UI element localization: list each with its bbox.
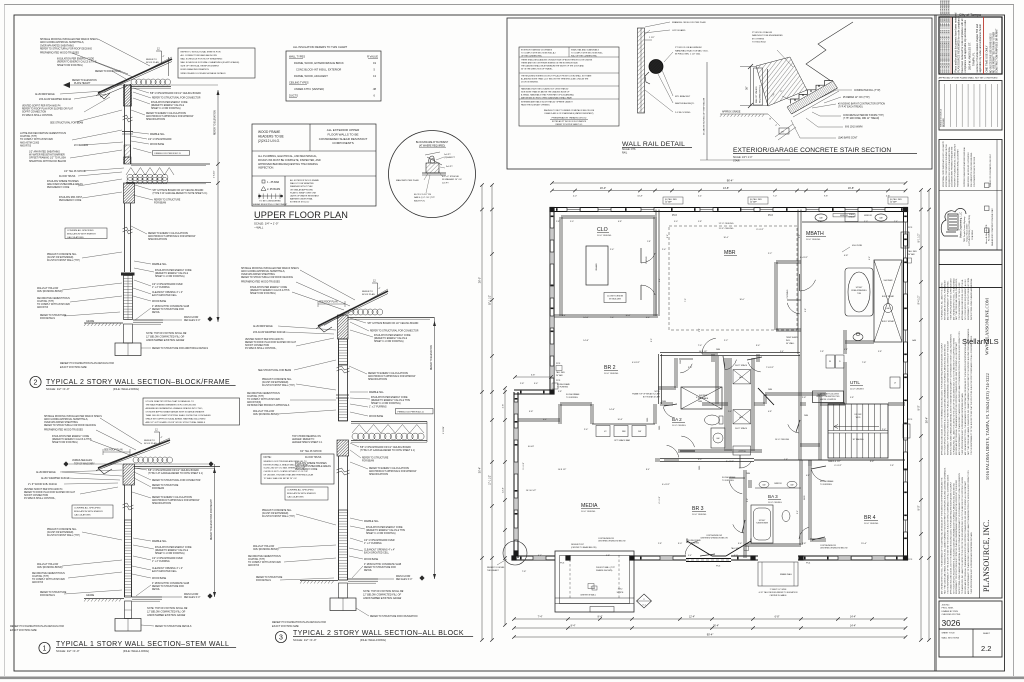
svg-text:RAILINGS TO BE PT LUMBER OR ME: RAILINGS TO BE PT LUMBER OR METAL IF BEL…: [544, 109, 595, 112]
svg-text:2'-4": 2'-4": [662, 249, 667, 251]
svg-text:SHEET TITLE: SHEET TITLE: [942, 633, 956, 635]
svg-text:FACT THAT CODES CAN CHANGE, PL: FACT THAT CODES CAN CHANGE, PLANSOURCE, …: [944, 467, 947, 594]
svg-text:PREFABRICATED WOOD TRUSSES: PREFABRICATED WOOD TRUSSES: [40, 52, 79, 55]
svg-text:TALL WIN: TALL WIN: [731, 547, 740, 550]
svg-text:S-5/SD-3 AT 48" O/C MAX. WHERE: S-5/SD-3 AT 48" O/C MAX. WHERE BOTTOM: [264, 467, 305, 470]
svg-text:NO SUCCESSIVE USE OR RE-USE IS: NO SUCCESSIVE USE OR RE-USE IS: [991, 33, 993, 73]
wall section 2 grade line: [84, 322, 123, 324]
svg-text:FLUSH AT FRONT WALL (TYP): FLUSH AT FRONT WALL (TYP): [262, 384, 295, 387]
svg-text:TO COMPLY WITH SECTIONS R311.A: TO COMPLY WITH SECTIONS R311.A.2: [521, 52, 556, 55]
hall walls center: [711, 354, 713, 362]
floor plan porch protrusion: [555, 551, 634, 612]
svg-text:SHEET FOR R RATING): SHEET FOR R RATING): [57, 64, 83, 67]
svg-text:UTIL: UTIL: [850, 380, 860, 385]
svg-text:WALL TYPES: WALL TYPES: [289, 55, 305, 59]
BA2 hall walls: [658, 354, 660, 404]
svg-text:3'-8": 3'-8": [558, 391, 562, 393]
svg-text:FLOOR TRUSS: FLOOR TRUSS: [59, 176, 76, 178]
svg-text:2'-6": 2'-6": [747, 498, 749, 502]
svg-text:ALUM DRIP EDGE: ALUM DRIP EDGE: [36, 471, 56, 474]
MBATH closet walls: [776, 260, 801, 262]
svg-text:TO FURRING: TO FURRING: [722, 480, 734, 482]
svg-text:CMU (RUNNING BOND): CMU (RUNNING BOND): [37, 567, 63, 569]
svg-text:(TYPE X AT GARAGE-REFER TO NOT: (TYPE X AT GARAGE-REFER TO NOTE SHEET 2.…: [153, 192, 208, 195]
svg-text:TO COMPLY WITH ASTM C926: TO COMPLY WITH ASTM C926: [248, 561, 282, 564]
svg-text:MAIN FLOOR: MAIN FLOOR: [184, 593, 199, 596]
svg-text:VENTED SOFFIT PER R704 AND P4: VENTED SOFFIT PER R704 AND P4: [24, 488, 63, 491]
svg-text:REFER TO STRUCTURE: REFER TO STRUCTURE: [154, 200, 181, 202]
section 2 footing: [115, 343, 141, 356]
floor plan interior CLO walls: [559, 217, 561, 316]
svg-text:16'-8": 16'-8": [848, 187, 854, 190]
revisions rule lines: [944, 84, 946, 127]
wall section 3 floor band: [351, 421, 427, 423]
svg-text:FEMA CLASS 4 OR 5 MATERIALS (W: FEMA CLASS 4 OR 5 MATERIALS (WATER RESIS…: [545, 112, 594, 115]
svg-text:INSULATION PER ENERGY CODE: INSULATION PER ENERGY CODE: [57, 58, 94, 61]
svg-text:(TYP AT EACH TREAD): (TYP AT EACH TREAD): [838, 106, 863, 109]
svg-text:OFFSET FRAMING 1/2" TO FLUSH: OFFSET FRAMING 1/2" TO FLUSH: [29, 157, 66, 160]
svg-text:PLASTIC WRAP OVER ONE: PLASTIC WRAP OVER ONE: [290, 191, 317, 194]
svg-text:SIZE OF VERTICAL REINFORCEMENT: SIZE OF VERTICAL REINFORCEMENT: [181, 65, 220, 68]
corridor wall above BR3: [655, 458, 660, 460]
svg-text:(FLUSH OR EXTENDED): (FLUSH OR EXTENDED): [47, 532, 74, 534]
svg-text:36" WALL: 36" WALL: [786, 342, 794, 345]
revisions box: [939, 81, 1002, 131]
svg-text:26'-0": 26'-0": [479, 277, 482, 283]
wall section 1 ceiling gyp lines: [134, 466, 220, 468]
CLO double door: [641, 253, 655, 263]
svg-text:13'-4 1/2": 13'-4 1/2": [831, 461, 840, 463]
svg-text:ABOVE LOCATION: ABOVE LOCATION: [820, 398, 836, 401]
svg-text:SOFFIT CONNECTION: SOFFIT CONNECTION: [24, 495, 49, 497]
svg-text:TO FURRING: TO FURRING: [820, 484, 832, 486]
wall rail detail wall strip: [638, 28, 645, 113]
svg-text:AND PRODUCT APPROVALS FOR WIND: AND PRODUCT APPROVALS FOR WINDOW: [146, 115, 194, 118]
svg-text:3'-0": 3'-0": [688, 367, 693, 369]
svg-text:5'-4": 5'-4": [844, 349, 848, 351]
top right details enclosure box: [507, 18, 932, 169]
wall section 3 right lower leaders: [350, 518, 363, 521]
svg-text:PER ENERGY CODE: PER ENERGY CODE: [47, 187, 70, 189]
svg-text:SHEET C.1 FOR R RATING): SHEET C.1 FOR R RATING): [374, 340, 404, 343]
svg-text:REFER TO STRUCTURE DETAILS: REFER TO STRUCTURE DETAILS: [155, 625, 192, 628]
svg-text:CEILING TYPES: CEILING TYPES: [289, 81, 309, 85]
svg-text:16'-0": 16'-0": [739, 299, 744, 301]
svg-text:LATHE AND DECORATIVE CEMENTITI: LATHE AND DECORATIVE CEMENTITIOUS: [20, 132, 66, 135]
svg-text:2080: 2080: [659, 426, 661, 430]
MBATH shower: [874, 260, 902, 342]
wall section 3 stem and footing: [339, 583, 348, 598]
svg-text:BOND BEAM INFORMATION: BOND BEAM INFORMATION: [181, 68, 210, 71]
svg-text:2'-6": 2'-6": [797, 510, 799, 514]
svg-text:6'-4": 6'-4": [538, 555, 542, 557]
svg-text:5'-4": 5'-4": [780, 351, 784, 353]
svg-text:COMPACTED FILL (TYP): COMPACTED FILL (TYP): [854, 89, 881, 92]
BR4 closet: [808, 460, 810, 540]
svg-text:12" BELOW COMPACTED FILL OR: 12" BELOW COMPACTED FILL OR: [147, 611, 185, 614]
svg-text:36"X60": 36"X60": [759, 520, 766, 522]
stair rail left post line: [767, 69, 769, 106]
svg-text:ALL CONNECTIONS AND ANCHORS: ALL CONNECTIONS AND ANCHORS: [181, 54, 218, 57]
svg-text:BLOCK/FRAME ATTACHMENT: BLOCK/FRAME ATTACHMENT: [416, 141, 449, 144]
svg-text:CENTERED W/WINDOW BELOW: CENTERED W/WINDOW BELOW: [820, 548, 848, 550]
svg-text:EXACT FOOTING SIZE: EXACT FOOTING SIZE: [10, 629, 37, 632]
svg-text:4'-8 1/2": 4'-8 1/2": [632, 362, 640, 364]
svg-text:1" x 2" FURRING: 1" x 2" FURRING: [369, 407, 387, 409]
svg-text:(CENTER TO BEAM BELOW): (CENTER TO BEAM BELOW): [571, 546, 597, 549]
hall walls west of duct: [715, 356, 717, 404]
svg-text:WHERE SHOWN): WHERE SHOWN): [596, 570, 613, 572]
shear notes lintel sketch: [258, 195, 283, 197]
svg-text:RESPONSIBILITY FOR STRUCTURES: RESPONSIBILITY FOR STRUCTURES BUILT FROM…: [946, 340, 949, 455]
svg-text:MARBLE SILL: MARBLE SILL: [364, 520, 380, 523]
svg-text:TYPICAL 2 STORY WALL SECTION–B: TYPICAL 2 STORY WALL SECTION–BLOCK/FRAME: [46, 379, 230, 386]
svg-text:OF LEDGER, TRUSSES THAT ARE PE: OF LEDGER, TRUSSES THAT ARE PERPENDICULA…: [264, 473, 314, 476]
svg-text:INSULATION WITH ENERGY: INSULATION WITH ENERGY: [67, 233, 97, 236]
svg-text:10'-0" CEILING: 10'-0" CEILING: [850, 389, 864, 391]
svg-text:REFER TO ELEVATION: REFER TO ELEVATION: [72, 79, 97, 82]
svg-text:SCALE: 1/4" = 1'-0": SCALE: 1/4" = 1'-0": [254, 222, 278, 226]
svg-text:REFER TO STRUCTURE: REFER TO STRUCTURE: [256, 577, 283, 579]
floor plan exterior wall left lower: [513, 392, 515, 558]
svg-text:SCALE: 1/2" =1'-0": SCALE: 1/2" =1'-0": [56, 649, 80, 653]
svg-text:1" x 2" FURRING: 1" x 2" FURRING: [364, 543, 382, 545]
svg-text:5/8" GYPSUM BOARD OR 1/2" CEIL: 5/8" GYPSUM BOARD OR 1/2" CEILING BOARD: [148, 469, 199, 472]
wall section 2 ceiling insulation batts: [131, 79, 171, 85]
svg-text:24" AFF: 24" AFF: [665, 201, 673, 204]
svg-text:2'-4": 2'-4": [610, 249, 615, 251]
svg-text:2'-8": 2'-8": [802, 397, 807, 399]
svg-text:14'-8 1/2": 14'-8 1/2": [699, 351, 708, 353]
svg-text:UNDISTURBED EXISTING GRADE: UNDISTURBED EXISTING GRADE: [147, 614, 186, 617]
svg-text:& 20" TALL RECESS-REFER TO ELE: & 20" TALL RECESS-REFER TO ELEVATION: [759, 591, 798, 594]
svg-text:CLOSET DESIGN: CLOSET DESIGN: [607, 296, 624, 298]
wall section 1 elevation dim line: [214, 464, 216, 597]
svg-text:TYPICAL 2 STORY WALL SECTION–A: TYPICAL 2 STORY WALL SECTION–ALL BLOCK: [293, 630, 464, 637]
svg-text:EXTERIOR STAIRS AT DOORWAYS: EXTERIOR STAIRS AT DOORWAYS: [521, 49, 553, 52]
svg-text:REFER TO FOUNDATION PLAN DETAI: REFER TO FOUNDATION PLAN DETAILS FOR: [272, 621, 326, 624]
svg-text:INCL: INCL: [786, 340, 790, 342]
svg-text:AND PRODUCT APPROVALS FOR WIND: AND PRODUCT APPROVALS FOR WINDOW: [369, 470, 417, 473]
svg-text:SHEET C.1 FOR R RATING): SHEET C.1 FOR R RATING): [155, 552, 185, 555]
svg-text:WWW.PLANSONLINE.COM: WWW.PLANSONLINE.COM: [985, 298, 990, 355]
svg-text:7'-0": 7'-0": [685, 298, 687, 302]
sheet top edge line: [4, 4, 1014, 6]
svg-text:THE LANDING SHALL BE AT MINIMU: THE LANDING SHALL BE AT MINIMUM THE WIDT…: [521, 65, 585, 68]
svg-text:FOR BEAM: FOR BEAM: [152, 487, 164, 490]
svg-text:8'-1 1/2": 8'-1 1/2": [756, 229, 764, 231]
svg-text:HANDRAIL EXACT DETAIL T.B.D.: HANDRAIL EXACT DETAIL T.B.D.: [675, 49, 709, 52]
svg-text:PLANSOURCE, INC.: PLANSOURCE, INC.: [982, 520, 991, 592]
svg-text:INSULATION PER ENERGY CODE: INSULATION PER ENERGY CODE: [366, 526, 403, 529]
svg-text:REFER TO STRUCTURAL SHEETS FOR: REFER TO STRUCTURAL SHEETS FOR:: [181, 51, 222, 54]
stair down arrow: [834, 425, 879, 429]
svg-text:7'-8": 7'-8": [522, 571, 527, 573]
svg-text:24" AFF: 24" AFF: [556, 374, 564, 377]
svg-text:APPLICABLE BUILDING CODES. DUE: APPLICABLE BUILDING CODES. DUE TO THE VA…: [949, 481, 952, 594]
svg-text:SHEET FOR R RATING): SHEET FOR R RATING): [52, 441, 78, 444]
svg-text:CONCRETE EXTERIOR STAIRS (TYP): CONCRETE EXTERIOR STAIRS (TYP): [843, 114, 884, 117]
svg-text:CENTERED W/WINDOW BELOW: CENTERED W/WINDOW BELOW: [598, 541, 626, 543]
svg-text:FLUSH AT FRONT WALL (TYP): FLUSH AT FRONT WALL (TYP): [262, 515, 295, 518]
svg-text:5'-8": 5'-8": [529, 411, 534, 413]
svg-text:2680: 2680: [828, 461, 832, 463]
svg-text:(7.75" MAX RISE, MIN 11" TREAD: (7.75" MAX RISE, MIN 11" TREAD): [843, 117, 879, 120]
svg-text:9'-4": 9'-4": [659, 278, 661, 282]
svg-text:REFER TO STRUCTURE FOR: REFER TO STRUCTURE FOR: [364, 567, 396, 569]
svg-text:REFER TO STRUCTURAL FOR CONNEC: REFER TO STRUCTURAL FOR CONNECTOR: [152, 479, 201, 482]
svg-text:SEALED FOR FOUNDATION USE ONLY: SEALED FOR FOUNDATION USE ONLY: [989, 153, 992, 187]
svg-text:40 HT: 40 HT: [528, 446, 535, 448]
svg-text:RAILINGS TO BE ENGINEERED: RAILINGS TO BE ENGINEERED: [752, 34, 783, 37]
svg-text:UNDISTURBED EXISTING GRADE: UNDISTURBED EXISTING GRADE: [363, 597, 402, 600]
svg-text:2'-8": 2'-8": [556, 221, 560, 223]
svg-text:BODY SPRAY: BODY SPRAY: [882, 295, 895, 298]
svg-text:CONTRA WINDOW: CONTRA WINDOW: [706, 534, 722, 537]
svg-text:6'-8": 6'-8": [618, 221, 622, 223]
UTIL room walls: [843, 362, 845, 404]
svg-text:OR SIMILAR APPROVED: OR SIMILAR APPROVED: [290, 188, 314, 191]
svg-text:PT WOOD OR ALUMINUM: PT WOOD OR ALUMINUM: [675, 46, 702, 49]
wall rail dim 1.5in: [645, 39, 652, 41]
svg-text:1' 8-3/4": 1' 8-3/4": [214, 170, 216, 178]
svg-text:TOP CHORD BEARING ON: TOP CHORD BEARING ON: [292, 435, 321, 438]
svg-text:THEIR SPECIFICATION SHEET SUPE: THEIR SPECIFICATION SHEET SUPERSEDES ANY: [949, 277, 952, 320]
svg-text:TO COMPLY WITH SECTIONS R311,: TO COMPLY WITH SECTIONS R311,: [571, 53, 603, 55]
svg-text:REFER TO ROOF PLAN FOR SLOPED: REFER TO ROOF PLAN FOR SLOPED OR FLAT: [24, 491, 76, 494]
svg-text:2X6 ALUM WRAPPED FASCIA: 2X6 ALUM WRAPPED FASCIA: [253, 331, 286, 334]
svg-text:IT IS THE RESPONSIBILITY OF TH: IT IS THE RESPONSIBILITY OF THE BUILDER: [959, 282, 961, 320]
svg-text:OPT SNACK BAR: OPT SNACK BAR: [614, 439, 631, 442]
svg-text:10'-0" CEILING: 10'-0" CEILING: [806, 239, 821, 241]
svg-text:P4 SPECS SHALL CONTROL: P4 SPECS SHALL CONTROL: [22, 114, 54, 117]
svg-text:17'-1 1/2": 17'-1 1/2": [489, 475, 492, 485]
svg-text:ALUM DRIP EDGE: ALUM DRIP EDGE: [35, 93, 55, 96]
svg-text:2'-8": 2'-8": [503, 404, 505, 409]
svg-text:AND ASTM C1063: AND ASTM C1063: [20, 141, 40, 144]
svg-text:MARBLE SILL: MARBLE SILL: [369, 391, 385, 394]
svg-text:4'-6": 4'-6": [869, 256, 871, 260]
BR4 closet interior: [808, 460, 810, 466]
svg-text:JOB NO.: JOB NO.: [942, 605, 951, 607]
svg-text:REFER TO STRUCTURE: REFER TO STRUCTURE: [362, 458, 389, 460]
laundry walls: [800, 402, 806, 404]
svg-text:14'-8 1/2": 14'-8 1/2": [558, 469, 567, 471]
wall section 3 eave fascia: [318, 326, 332, 332]
svg-text:TO PLANSOURCE, INC. LIABILITY: TO PLANSOURCE, INC. LIABILITY IS LIMITED…: [952, 337, 955, 455]
gable recess: [758, 562, 798, 586]
svg-text:CONSTRUCTION PURPOSES OR PERMI: CONSTRUCTION PURPOSES OR PERMIT: [996, 28, 998, 73]
svg-text:(FILE: WALL1.DWG): (FILE: WALL1.DWG): [123, 649, 149, 653]
wall section 1 draftstopping notes box: [143, 398, 240, 425]
wall section 2 structural notes box: [178, 48, 255, 78]
svg-text:REFER TO ROOF PLAN FOR SLOPED: REFER TO ROOF PLAN FOR SLOPED OR FLAT: [245, 341, 297, 344]
svg-text:4" MONOLITHIC CONCRETE SLAB: 4" MONOLITHIC CONCRETE SLAB: [152, 582, 190, 585]
svg-text:A TREAD. HANDRAILS THAT FORM: A TREAD. HANDRAILS THAT FORM PART OF A G…: [521, 94, 574, 97]
svg-text:4'-8": 4'-8": [802, 543, 807, 545]
block frame attachment detail circle: [389, 131, 476, 218]
svg-text:ISLAND: ISLAND: [595, 263, 598, 271]
svg-text:WOOD BASE: WOOD BASE: [150, 143, 165, 146]
svg-text:CALCULATIONS: CALCULATIONS: [287, 496, 304, 499]
svg-text:Hanna A. Hanafan, P.E.: Hanna A. Hanafan, P.E.: [985, 224, 988, 244]
svg-text:REFER TO ENERGY CALCULATIONS: REFER TO ENERGY CALCULATIONS: [148, 232, 188, 235]
wall section 2 confirm insulation box: [65, 228, 107, 239]
narrow box 2: [939, 265, 1002, 288]
svg-text:FACT THAT CODES CAN CHANGE, PL: FACT THAT CODES CAN CHANGE, PLANSOURCE,: [955, 278, 958, 320]
svg-text:MTL BRACKET: MTL BRACKET: [675, 95, 691, 98]
wall section 3 note box: [261, 454, 334, 484]
svg-text:INSULATE WHERE TRUSSES: INSULATE WHERE TRUSSES: [47, 180, 79, 183]
svg-text:CONFIRM ALL SPECIFIED: CONFIRM ALL SPECIFIED: [74, 507, 101, 510]
svg-text:(2)2X12 U.N.O.: (2)2X12 U.N.O.: [258, 139, 280, 143]
svg-text:NAIL SCHEDULE FOR WALL SHEATHI: NAIL SCHEDULE FOR WALL SHEATHING (IF APP…: [181, 61, 240, 64]
svg-text:LAYER OF WATER RESISTANT: LAYER OF WATER RESISTANT: [290, 195, 320, 198]
svg-text:INSULATION PER ENERGY CODE: INSULATION PER ENERGY CODE: [250, 286, 287, 289]
wall section 2 elevation dim line: [217, 90, 219, 322]
svg-text:THE MAIN FRAMING MEMBERS IN FL: THE MAIN FRAMING MEMBERS IN FLOOR/CEILIN…: [146, 404, 197, 407]
svg-text:SHINGLE ROOFING INSTALLED PER: SHINGLE ROOFING INSTALLED PER MANUF SPEC…: [40, 38, 98, 41]
job number box: [939, 601, 1002, 629]
svg-text:PROJ. MGR.: PROJ. MGR.: [942, 608, 955, 610]
svg-text:ROOF PLAN: ROOF PLAN: [362, 293, 375, 296]
wall section 3 window sill marks: [336, 394, 349, 396]
svg-text:.38: .38: [372, 87, 376, 91]
svg-text:W: W: [829, 361, 831, 363]
svg-text:34"X66": 34"X66": [856, 287, 863, 289]
svg-text:DN 16R: DN 16R: [855, 414, 862, 416]
svg-text:5'-4": 5'-4": [698, 195, 702, 197]
svg-text:CENTER IN GABLE: CENTER IN GABLE: [769, 594, 787, 597]
engineer box divider: [939, 190, 1002, 192]
svg-text:THE REQUIRED EGRESS DOOR (TYPI: THE REQUIRED EGRESS DOOR (TYPICALLY FRON…: [521, 75, 592, 78]
MBR MBATH divider wall: [797, 210, 799, 355]
insulation chart box: [286, 51, 381, 101]
stamp inner columns: [952, 17, 954, 74]
svg-text:FL #55416607: FL #55416607: [989, 229, 991, 241]
svg-text:8'-0": 8'-0": [918, 405, 921, 410]
svg-text:2X FRAMING: 2X FRAMING: [74, 144, 88, 147]
svg-text:MIRROR: MIRROR: [864, 215, 872, 217]
svg-text:STAIR: STAIR: [733, 160, 740, 163]
svg-text:NAILS @ 4" O/C (TYP: NAILS @ 4" O/C (TYP: [414, 196, 435, 199]
svg-text:INSULATION WITH ENERGY: INSULATION WITH ENERGY: [74, 510, 104, 513]
svg-text:2'-8": 2'-8": [647, 241, 651, 243]
svg-text:REFER TO STRUCTURAL FOR ROOF D: REFER TO STRUCTURAL FOR ROOF DECKING: [241, 276, 293, 279]
svg-text:5/8" GYPSUM BOARD OR 1/2" CEIL: 5/8" GYPSUM BOARD OR 1/2" CEILING BOARD: [153, 189, 204, 192]
wall section 2 plate height marker: [63, 82, 70, 88]
svg-text:APPROX GRADE: APPROX GRADE: [722, 111, 741, 114]
svg-text:REFER TO ELEVATION: REFER TO ELEVATION: [214, 110, 217, 135]
svg-text:EXACT FOOTING SIZE: EXACT FOOTING SIZE: [60, 366, 87, 369]
svg-text:CLOSING: CLOSING: [787, 289, 789, 298]
svg-text:4'-1 1/2": 4'-1 1/2": [696, 397, 704, 399]
svg-text:(REFER TO ENERGY CALCS & THIS: (REFER TO ENERGY CALCS & THIS: [366, 529, 405, 532]
svg-text:SHINGLE ROOFING INSTALLED PER: SHINGLE ROOFING INSTALLED PER MANUF SPEC…: [44, 415, 102, 418]
svg-text:REFUNDS ARE NOT GIVEN. ALL PL: REFUNDS ARE NOT GIVEN. ALL PLANS AND ARC…: [964, 480, 967, 594]
svg-text:INSTRUCTIONS: SOME CHANGES AN: INSTRUCTIONS: SOME CHANGES AND MATERIAL: [970, 278, 973, 320]
svg-text:10'-0" CEILING: 10'-0" CEILING: [672, 425, 686, 427]
floor plan exterior wall top: [550, 207, 908, 209]
floor plan right dim lines: [920, 190, 922, 640]
svg-text:(FLUSH OR EXTENDED): (FLUSH OR EXTENDED): [262, 513, 289, 515]
svg-text:DUCT SPACE: DUCT SPACE: [735, 427, 748, 430]
svg-text:TO PLANSOURCE, INC. LIABILITY: TO PLANSOURCE, INC. LIABILITY IS LIMITED: [941, 282, 944, 320]
svg-text:ELCR X 3-1/2" RS: ELCR X 3-1/2" RS: [414, 194, 432, 196]
svg-text:CMU (RUNNING BOND): CMU (RUNNING BOND): [37, 291, 63, 293]
stair leader lines: [820, 90, 852, 98]
svg-text:12" BELOW COMPACTED FILL OF: 12" BELOW COMPACTED FILL OF: [363, 594, 401, 597]
svg-text:(AT WHERE REQUIRED): (AT WHERE REQUIRED): [419, 144, 445, 147]
svg-text:INSTRUCTIONS: SOME CHANGES AN: INSTRUCTIONS: SOME CHANGES AND MATERIAL …: [949, 333, 952, 455]
svg-text:4'-1 1/2": 4'-1 1/2": [659, 496, 661, 504]
svg-text:VENTED SOFFIT PER R704 AND P4: VENTED SOFFIT PER R704 AND P4: [245, 338, 284, 341]
svg-text:10'-0" CEILING: 10'-0" CEILING: [604, 373, 619, 375]
svg-text:FRAMING OR BLOCK PER PLAN: FRAMING OR BLOCK PER PLAN: [672, 21, 706, 24]
svg-text:MARBLE SILL: MARBLE SILL: [150, 133, 166, 136]
svg-text:EXTERIOR/GARAGE CONCRETE STAIR: EXTERIOR/GARAGE CONCRETE STAIR SECTION: [733, 147, 891, 154]
svg-text:DETAIL: DETAIL: [152, 588, 161, 591]
svg-text:CERTIFIED PLANS MUST BEAR EMBO: CERTIFIED PLANS MUST BEAR EMBOSSED SEAL: [963, 147, 966, 187]
svg-text:TO COMPLY WITH ASTM C926: TO COMPLY WITH ASTM C926: [37, 303, 71, 306]
wall section 2 upper wall studs: [124, 84, 126, 164]
svg-text:(FLUSH OR EXTENDED): (FLUSH OR EXTENDED): [47, 257, 74, 259]
svg-text:ANY USE AND INTENT TO WELL THE: ANY USE AND INTENT TO WELL THE ASSURANCE: [952, 277, 955, 320]
svg-text:THERE SHALL BE A LANDING ON EA: THERE SHALL BE A LANDING ON EACH SIDE OF…: [521, 59, 593, 62]
svg-text:CALCULATIONS: CALCULATIONS: [74, 514, 91, 517]
wall section 2 precast sill block: [121, 273, 135, 276]
MBATH vanity: [802, 221, 903, 223]
svg-text:AND FLORIDA APPROVAL SUBMITTAL: AND FLORIDA APPROVAL SUBMITTALS,: [40, 41, 84, 44]
svg-text:REFER TO ELEVATION: REFER TO ELEVATION: [430, 345, 433, 370]
svg-text:INSULATION PER ENERGY CODE: INSULATION PER ENERGY CODE: [52, 435, 89, 438]
svg-text:BY OTHERS: BY OTHERS: [752, 38, 765, 40]
svg-text:2'-0": 2'-0": [728, 411, 732, 413]
svg-text:14'-8": 14'-8": [583, 340, 589, 342]
svg-text:FIREBLOCK PER R302.11: FIREBLOCK PER R302.11: [398, 411, 425, 413]
svg-text:7'-4": 7'-4": [538, 616, 543, 619]
wall section 3 elevation dim line: [434, 317, 436, 579]
wall section 2 lower right leaders: [134, 261, 151, 264]
svg-text:MAY BE MIN 36" HIGH. OPEN GUAR: MAY BE MIN 36" HIGH. OPEN GUARDRAILS SHA…: [521, 97, 572, 100]
svg-text:SHINGLE ROOFING INSTALLED PER: SHINGLE ROOFING INSTALLED PER MANUF SPEC…: [241, 267, 299, 270]
svg-text:THEIR SPECIFICATION SHEET SUPE: THEIR SPECIFICATION SHEET SUPERSEDES ANY…: [961, 393, 964, 455]
svg-text:SHEET C.1 FOR R RATING): SHEET C.1 FOR R RATING): [151, 107, 181, 110]
svg-text:(FILE: WALL3.DWG): (FILE: WALL3.DWG): [360, 638, 386, 642]
svg-text:ROUGH-INS MUST BE COMPLETE,: ROUGH-INS MUST BE COMPLETE, INSPECTED, A…: [258, 159, 321, 162]
svg-text:INSULATION WITH ENERGY: INSULATION WITH ENERGY: [287, 492, 317, 495]
svg-text:MAIN FLOOR: MAIN FLOOR: [184, 316, 199, 319]
svg-text:1/2" APA RATED SHEATHING: 1/2" APA RATED SHEATHING: [29, 151, 60, 154]
svg-text:2680: 2680: [746, 473, 750, 475]
sheet left edge: [4, 5, 6, 677]
svg-text:TO PLANSOURCE, INC. LIABILITY: TO PLANSOURCE, INC. LIABILITY IS LIMITED…: [961, 476, 964, 594]
svg-text:UTILIZE DRAFTSTOPPING THAT IS: UTILIZE DRAFTSTOPPING THAT IS PARALLEL T…: [146, 400, 195, 403]
svg-text:(REFER TO ENERGY CALCS &: (REFER TO ENERGY CALCS &: [151, 104, 185, 107]
svg-text:SCALE: 1/4"= 1'-0": SCALE: 1/4"= 1'-0": [733, 156, 753, 159]
svg-text:UPPER FLOOR PLAN: UPPER FLOOR PLAN: [254, 210, 348, 220]
sheet right edge: [1013, 5, 1015, 677]
svg-text:6X6 10/10 WWM: 6X6 10/10 WWM: [845, 127, 862, 129]
svg-text:INSULATION PER ENERGY CODE: INSULATION PER ENERGY CODE: [371, 396, 408, 399]
svg-text:APPROVAL OF SITE PLANS SHALL N: APPROVAL OF SITE PLANS SHALL NOT BE CONS…: [938, 77, 997, 80]
svg-text:1/2"x 6" STEM HD: 1/2"x 6" STEM HD: [442, 176, 460, 178]
svg-text:2'-8": 2'-8": [890, 465, 894, 467]
svg-text:FASTEN AS REQ'D: FASTEN AS REQ'D: [675, 102, 695, 105]
svg-text:WITH YOUR SPECIFIC REQUIREMENT: WITH YOUR SPECIFIC REQUIREMENTS. ALL BUI…: [952, 483, 955, 594]
svg-text:DECORATIVE CEMENTITIOUS: DECORATIVE CEMENTITIOUS: [37, 297, 70, 300]
svg-text:OVER APA RATED SHEATHING: OVER APA RATED SHEATHING: [241, 273, 275, 276]
